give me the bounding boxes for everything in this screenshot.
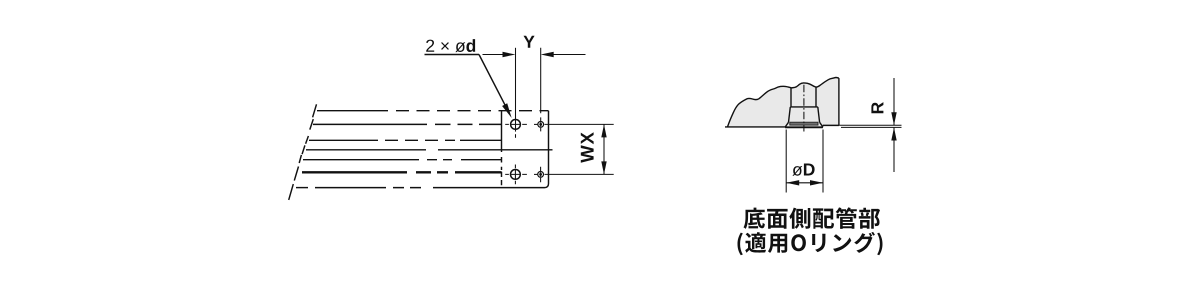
oD dimension line — [786, 182, 823, 184]
oD dim arrow right — [810, 180, 823, 185]
boss top edge — [790, 106, 818, 108]
R dim arrow down — [891, 112, 896, 125]
port hole B crosshair vertical — [514, 165, 516, 185]
body line 5 — [303, 159, 419, 161]
body outline wavy top and left — [728, 78, 839, 127]
port hole wall left — [790, 88, 792, 107]
leader arrowhead — [502, 103, 512, 118]
Y dim arrow left — [503, 52, 516, 57]
break tick 1 — [313, 104, 317, 117]
body bottom left of boss — [725, 126, 786, 128]
WX extension line bottom — [545, 173, 614, 175]
O-ring band — [790, 122, 818, 125]
port hole wall right — [815, 87, 817, 107]
label 2×ød — [426, 39, 475, 52]
small hole B center dot — [539, 173, 542, 176]
Y extension line left (through hole A) — [515, 48, 517, 132]
boss side right — [818, 107, 820, 122]
JP caption line 1: 底面側配管部 — [744, 207, 881, 229]
leader diagonal — [479, 55, 508, 110]
leader shelf for 2xod — [425, 54, 480, 56]
R dim arrow up — [891, 128, 896, 141]
body line 1 — [317, 110, 388, 112]
body line 7 (bottom) — [296, 187, 308, 189]
flange bottom heavy line — [785, 127, 823, 129]
Y extension line right (through small hole A) — [540, 48, 542, 132]
WX dim arrow down — [601, 161, 606, 174]
label Y — [524, 36, 535, 48]
oD extension line right — [822, 130, 824, 193]
oD extension line left — [785, 130, 787, 193]
WX extension line top — [545, 123, 614, 125]
small hole A (row1) — [538, 122, 544, 128]
Y dim arrow right — [541, 52, 554, 57]
oD dim arrow left — [786, 180, 799, 185]
plate left edge — [501, 110, 503, 152]
port hole A crosshair horizontal — [505, 123, 527, 125]
boss side left — [789, 107, 791, 122]
port hole B (row2 big) — [511, 170, 521, 180]
Y dimension line left part — [483, 54, 505, 56]
body line 4 (mid line through plate) — [306, 149, 426, 151]
break tick 2 — [310, 119, 314, 130]
R dimension line lower — [893, 128, 895, 172]
WX dimension line — [603, 124, 605, 174]
label R — [871, 102, 883, 113]
R extension line bottom — [841, 126, 902, 128]
body right edge — [838, 78, 840, 125]
break tick 5 — [299, 155, 301, 163]
flange outline — [785, 122, 822, 127]
small hole B crosshair vertical — [540, 167, 542, 182]
small hole B (row2) — [538, 172, 544, 178]
label WX — [581, 132, 594, 163]
port hole B crosshair horizontal — [505, 173, 527, 175]
R dimension line upper — [893, 78, 895, 125]
body line 2 — [313, 123, 427, 125]
body bottom right of boss — [823, 124, 839, 126]
body line 3 — [309, 139, 378, 141]
body line 6 (thick) — [302, 171, 502, 173]
JP caption line 2: (適用Oリング) — [738, 232, 883, 255]
R extension line top — [823, 124, 902, 126]
break tick 4 — [302, 145, 305, 154]
break tick 7 — [289, 184, 294, 200]
small hole B crosshair left — [534, 173, 538, 175]
plate right edge and bottom with rounded corner — [502, 111, 549, 188]
break tick 3 — [306, 136, 309, 144]
right figure: body gray fill — [728, 78, 839, 128]
boss centerline — [803, 85, 805, 132]
port hole A (row1 big) — [511, 120, 521, 130]
label øD — [792, 164, 814, 176]
Y dimension line right part — [552, 54, 586, 56]
break tick 6 — [294, 167, 298, 181]
WX dim arrow up — [601, 124, 606, 137]
small hole A center dot — [539, 123, 542, 126]
small hole A crosshair left — [534, 123, 538, 125]
